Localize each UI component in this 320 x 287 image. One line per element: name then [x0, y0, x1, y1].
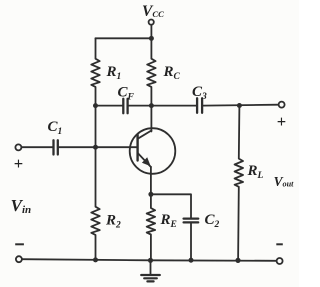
svg-text:+: +	[277, 112, 286, 131]
svg-text:+: +	[14, 154, 23, 173]
